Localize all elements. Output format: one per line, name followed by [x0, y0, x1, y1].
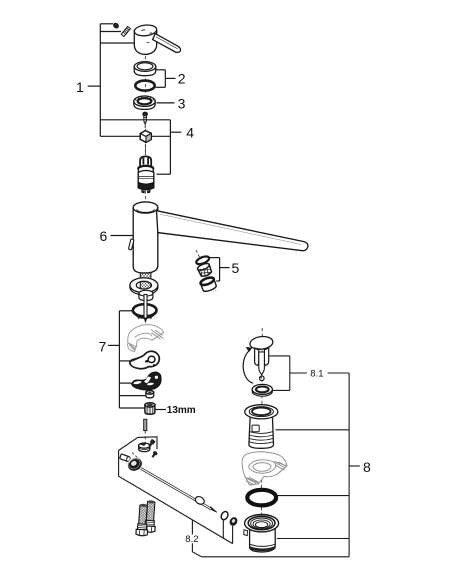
threaded shank: [140, 273, 151, 295]
svg-text:3: 3: [178, 95, 186, 111]
rod dark ring: [228, 516, 239, 527]
seal 8.1b: [252, 384, 272, 396]
svg-text:8.2: 8.2: [185, 534, 198, 545]
nut 4: [140, 131, 151, 143]
ring 3: [134, 96, 155, 109]
spout of body: [157, 211, 308, 251]
handle screw: [113, 22, 131, 36]
leader 3: [157, 102, 175, 104]
cartridge stem dashes: [144, 144, 146, 155]
label 13mm: [155, 409, 166, 411]
screw b: [150, 450, 158, 458]
svg-text:13mm: 13mm: [167, 405, 196, 416]
plastic washer gray: [242, 452, 287, 485]
bracket 4: [157, 120, 182, 174]
bracket 8.1: [269, 356, 349, 391]
cartridge: [138, 156, 154, 193]
small nut 7e: [146, 391, 154, 398]
svg-text:1: 1: [76, 79, 84, 95]
centerline main column: [145, 56, 262, 516]
screw 4: [143, 112, 148, 129]
pivot box: [119, 437, 350, 557]
pivot seal: [125, 455, 144, 473]
ball housing: [139, 443, 150, 452]
svg-text:7: 7: [99, 338, 107, 354]
knob 8.1: [249, 335, 273, 380]
part 5 insert: [197, 262, 213, 278]
faucet body 6: [133, 202, 308, 273]
leader 6: [111, 235, 134, 237]
part 5 housing: [199, 276, 217, 293]
braided hoses: [136, 500, 157, 536]
lever handle: [134, 24, 181, 54]
bracket 7: [108, 311, 146, 408]
base locknut: [139, 290, 153, 300]
black o-ring 8: [247, 490, 276, 506]
cap ring 2a: [134, 62, 156, 76]
nut 13mm 7f: [145, 403, 155, 415]
body pin: [128, 239, 134, 250]
thick ring 7a: [133, 304, 157, 316]
gray wedge 7b: [128, 325, 164, 352]
svg-text:8.1: 8.1: [310, 369, 323, 380]
rotation arrow: [243, 347, 253, 383]
bracket 8: [276, 373, 360, 557]
pull rod: [144, 295, 148, 324]
bracket 5: [210, 258, 230, 281]
bracket 2: [156, 70, 176, 88]
drain flange: [245, 405, 278, 449]
drain body: [244, 515, 279, 553]
svg-text:4: 4: [186, 124, 194, 140]
svg-text:2: 2: [178, 70, 186, 86]
hook 7c: [130, 351, 159, 368]
o-ring 2b: [135, 81, 154, 91]
svg-text:5: 5: [232, 260, 240, 276]
svg-text:6: 6: [100, 228, 108, 244]
bracket 1: [88, 24, 171, 137]
left fitting: [120, 454, 131, 462]
base ring: [130, 278, 158, 295]
horseshoe 7d: [132, 372, 162, 390]
threaded rod 8.2: [144, 419, 147, 430]
rod o-ring: [220, 510, 230, 521]
svg-text:8: 8: [363, 459, 371, 475]
part 5 o-ring: [195, 255, 210, 266]
screw a: [148, 439, 156, 448]
pop-up rod: [141, 469, 217, 513]
